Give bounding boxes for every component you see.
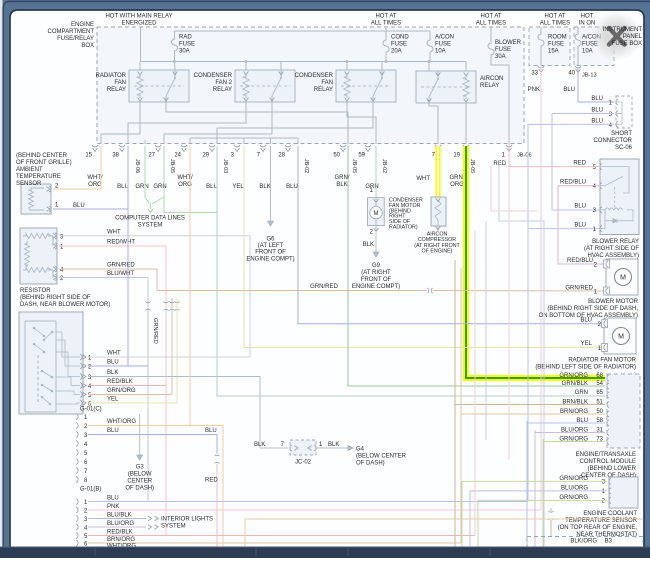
svg-text:BLU: BLU bbox=[73, 203, 85, 209]
wire BLU ECM 58 bbox=[527, 421, 605, 423]
svg-text:15: 15 bbox=[85, 153, 92, 159]
svg-text:M: M bbox=[618, 334, 624, 341]
wire vertical run x486 bbox=[485, 221, 487, 440]
svg-text:ENERGIZED: ENERGIZED bbox=[121, 21, 157, 27]
svg-text:GRN/RED: GRN/RED bbox=[107, 263, 135, 269]
wire BLK/ORG to B3 bbox=[550, 508, 552, 511]
wire BLK to JC-02 bbox=[260, 447, 288, 449]
ECM dashed box bbox=[607, 374, 640, 448]
svg-text:PANEL: PANEL bbox=[623, 34, 643, 40]
svg-text:BLK: BLK bbox=[363, 242, 374, 248]
svg-text:ENGINE: ENGINE bbox=[71, 22, 94, 28]
svg-text:YEL: YEL bbox=[581, 341, 593, 347]
switch pins 1-6 bbox=[80, 354, 86, 406]
svg-text:HOT AT: HOT AT bbox=[544, 14, 565, 20]
svg-text:(BEHIND LOWER: (BEHIND LOWER bbox=[588, 466, 637, 472]
svg-text:FUSE: FUSE bbox=[435, 42, 451, 48]
wire GRN/ORG switch5 bbox=[88, 394, 172, 396]
wire GRN/ORG ECT 3 bbox=[462, 480, 607, 482]
svg-text:CONTROL MODULE: CONTROL MODULE bbox=[580, 459, 636, 465]
svg-text:FRONT OF: FRONT OF bbox=[255, 250, 286, 256]
wire RED/BLK G-01(B)5 bbox=[88, 535, 475, 537]
svg-text:GRN: GRN bbox=[135, 184, 148, 190]
svg-text:ENGINE COMPT): ENGINE COMPT) bbox=[246, 256, 294, 262]
wire pin29 down to ECM 65 bbox=[217, 146, 605, 396]
svg-text:BLU/WHT: BLU/WHT bbox=[107, 271, 134, 277]
svg-text:GRN/: GRN/ bbox=[450, 175, 465, 181]
svg-text:RADIATOR): RADIATOR) bbox=[389, 225, 418, 231]
wire RED/WHT resistor pin1 bbox=[59, 246, 166, 536]
blower motor bbox=[606, 259, 638, 295]
svg-text:BLK: BLK bbox=[336, 182, 347, 188]
svg-text:GRN: GRN bbox=[575, 390, 588, 396]
wire BLU JB-13 to short connector bbox=[578, 67, 614, 102]
svg-text:OF DASH): OF DASH) bbox=[356, 461, 385, 467]
svg-text:HOT: HOT bbox=[581, 14, 594, 20]
ground G9 bbox=[373, 252, 379, 257]
wire WHT highlighted (pin 7 to compressor) bbox=[435, 146, 440, 198]
svg-text:ORG: ORG bbox=[450, 182, 464, 188]
svg-text:G6: G6 bbox=[266, 237, 275, 243]
svg-text:27: 27 bbox=[148, 153, 155, 159]
wire GRN pins to computer data lines bbox=[145, 146, 149, 203]
wire BLU/ORG ECM 31 bbox=[535, 430, 605, 433]
svg-text:YEL: YEL bbox=[232, 184, 244, 190]
svg-text:(AT RIGHT SIDE OF: (AT RIGHT SIDE OF bbox=[584, 246, 639, 252]
svg-text:ALL TIMES: ALL TIMES bbox=[371, 21, 401, 27]
svg-text:BLOWER RELAY: BLOWER RELAY bbox=[592, 239, 639, 245]
svg-text:GRN/ORG: GRN/ORG bbox=[107, 388, 136, 394]
wire BLK JC-02 to G4 bbox=[316, 447, 348, 449]
wire vertical run x475 RED/BLK bbox=[474, 230, 476, 536]
wire GRN pin59 to condenser fan motor bbox=[375, 146, 377, 198]
svg-text:BLU/ORG: BLU/ORG bbox=[107, 521, 134, 527]
wire BLU/BLK G-01(B)3 bbox=[88, 518, 146, 520]
svg-text:FAN 2: FAN 2 bbox=[215, 80, 232, 86]
ambient temperature sensor bbox=[21, 184, 51, 214]
svg-text:BLK: BLK bbox=[259, 184, 270, 190]
fuse A/CON FUSE 10A (instrument panel) bbox=[577, 27, 579, 33]
svg-text:FUSE: FUSE bbox=[179, 42, 195, 48]
aircon compressor bbox=[431, 197, 446, 226]
svg-text:GRN/ORG: GRN/ORG bbox=[559, 373, 588, 379]
wire BLU/ORG G-01(B)4 bbox=[88, 526, 146, 528]
svg-text:BLU: BLU bbox=[591, 108, 603, 114]
wire GRN/BLK pin50 to ECM 54 bbox=[348, 146, 605, 386]
svg-text:68: 68 bbox=[596, 373, 603, 379]
svg-text:FAN: FAN bbox=[114, 80, 126, 86]
svg-text:WHT: WHT bbox=[416, 176, 430, 182]
svg-text:BLU: BLU bbox=[107, 360, 119, 366]
svg-text:AMBIENT: AMBIENT bbox=[16, 167, 43, 173]
svg-text:(ON TOP REAR OF ENGINE,: (ON TOP REAR OF ENGINE, bbox=[558, 525, 638, 531]
svg-text:BLU: BLU bbox=[286, 184, 298, 190]
svg-text:ENGINE COOLANT: ENGINE COOLANT bbox=[583, 511, 637, 517]
svg-text:33: 33 bbox=[531, 71, 538, 77]
svg-text:SHORT: SHORT bbox=[611, 131, 632, 137]
wire BLU SC-06 pin3 to blower relay 3 bbox=[552, 114, 614, 211]
relay RADIATOR FAN RELAY bbox=[129, 70, 189, 102]
svg-text:BLU: BLU bbox=[591, 118, 603, 124]
wire PNK room fuse down to G-01(B)2 bbox=[540, 67, 542, 510]
wire YEL switch6 bbox=[88, 402, 177, 404]
wire BLK pin7 to G6 bbox=[270, 146, 272, 221]
wire bus hot-at-all-times top bbox=[385, 27, 387, 31]
inline connectors (splices) x148,166,172,177 bbox=[145, 302, 150, 303]
svg-text:IN ON: IN ON bbox=[579, 21, 596, 27]
svg-text:(BELOW CENTER: (BELOW CENTER bbox=[356, 454, 407, 460]
wire BLU SC-06 pin4 to blower relay 1 and G-01(B)1 bbox=[528, 124, 614, 501]
svg-text:38: 38 bbox=[112, 153, 119, 159]
svg-text:B3: B3 bbox=[605, 539, 613, 545]
svg-text:BOX: BOX bbox=[81, 43, 94, 49]
svg-text:BLU: BLU bbox=[591, 96, 603, 102]
svg-text:G4: G4 bbox=[356, 447, 365, 453]
svg-text:SC-06: SC-06 bbox=[615, 145, 633, 151]
svg-text:FAN: FAN bbox=[321, 80, 333, 86]
wire GRN/RED resistor pin4 bbox=[59, 269, 157, 291]
bottom-right dashed box bbox=[527, 537, 643, 553]
svg-text:WHT/: WHT/ bbox=[177, 175, 193, 181]
svg-text:RELAY: RELAY bbox=[107, 87, 126, 93]
svg-text:30A: 30A bbox=[495, 54, 506, 60]
svg-text:JB-13: JB-13 bbox=[582, 73, 597, 79]
svg-text:50: 50 bbox=[333, 153, 340, 159]
wire aircon switch output (pre-highlight) bbox=[429, 103, 438, 144]
svg-text:BLU: BLU bbox=[206, 184, 218, 190]
svg-text:JB-05: JB-05 bbox=[169, 159, 175, 173]
relay AIRCON RELAY bbox=[416, 71, 476, 103]
wire WHT/ORG G-01(B)7 bbox=[88, 549, 223, 551]
wire BRN/ORG G-01(B)6 bbox=[88, 542, 461, 544]
wire GRN pin27 to ECM 65 bbox=[164, 197, 217, 213]
wire GRN/ORG ECM 73 bbox=[543, 439, 605, 442]
svg-text:G9: G9 bbox=[372, 263, 381, 269]
svg-text:20A: 20A bbox=[391, 49, 402, 55]
svg-text:COMPARTMENT: COMPARTMENT bbox=[48, 29, 95, 35]
svg-text:CONDENSER: CONDENSER bbox=[295, 73, 334, 79]
svg-text:FRONT OF: FRONT OF bbox=[361, 277, 392, 283]
svg-text:JB-02: JB-02 bbox=[303, 159, 309, 173]
svg-text:BLK/ORG: BLK/ORG bbox=[570, 539, 597, 545]
svg-text:RED/BLK: RED/BLK bbox=[107, 379, 133, 385]
wire feed main relay bbox=[140, 27, 142, 62]
ECM pin labels bbox=[559, 373, 603, 443]
interior lights arrows bbox=[155, 516, 159, 521]
svg-text:BLU/BLK: BLU/BLK bbox=[107, 513, 132, 519]
fuse BLOWER FUSE 30A bbox=[490, 27, 492, 42]
svg-text:GRN: GRN bbox=[153, 184, 166, 190]
svg-text:(BEHIND RIGHT SIDE OF DASH,: (BEHIND RIGHT SIDE OF DASH, bbox=[547, 306, 638, 312]
short connector SC-06 bbox=[616, 96, 632, 128]
wire WHT resistor pin3 bbox=[59, 236, 250, 357]
svg-text:(BEHIND RIGHT SIDE OF: (BEHIND RIGHT SIDE OF bbox=[20, 295, 91, 301]
svg-text:GRN/RED: GRN/RED bbox=[310, 284, 338, 290]
svg-text:JB-06: JB-06 bbox=[134, 159, 140, 173]
fuse COND FUSE 20A bbox=[385, 31, 387, 39]
wire GRN/ORG (switch 5) vertical bbox=[171, 298, 173, 395]
bottom status bar bbox=[0, 547, 650, 558]
svg-text:FUSE: FUSE bbox=[391, 42, 407, 48]
svg-text:DASH, NEAR BLOWER MOTOR): DASH, NEAR BLOWER MOTOR) bbox=[20, 302, 110, 308]
wire PNK G-01(B)2 bbox=[88, 509, 541, 511]
JB junction labels (vertical) bbox=[134, 159, 475, 173]
wire colour labels under fusebox bbox=[0, 0, 1, 1]
wire BLU vertical x217 bbox=[216, 435, 218, 455]
svg-text:SYSTEM: SYSTEM bbox=[138, 223, 163, 229]
junction connector JC-02 bbox=[290, 440, 316, 455]
svg-text:FUSE: FUSE bbox=[548, 42, 564, 48]
svg-text:ROOM: ROOM bbox=[548, 35, 567, 41]
svg-text:RADIATOR: RADIATOR bbox=[96, 73, 127, 79]
svg-text:FUSE/RELAY: FUSE/RELAY bbox=[57, 36, 94, 42]
svg-text:RED: RED bbox=[573, 160, 586, 166]
svg-text:INSTRUMENT: INSTRUMENT bbox=[603, 27, 643, 33]
svg-text:COND: COND bbox=[391, 35, 409, 41]
splice on BLU/RED vertical bbox=[214, 455, 219, 456]
wire BLU G-01(C)3 bbox=[88, 434, 217, 436]
svg-text:OF ENGINE): OF ENGINE) bbox=[422, 249, 453, 255]
svg-text:JC-02: JC-02 bbox=[295, 460, 312, 466]
svg-text:RED: RED bbox=[493, 161, 506, 167]
svg-text:RESISTOR: RESISTOR bbox=[20, 288, 51, 294]
svg-text:54: 54 bbox=[596, 381, 603, 387]
svg-text:M: M bbox=[620, 275, 626, 282]
svg-text:CENTER: CENTER bbox=[127, 479, 152, 485]
svg-text:AIRCON: AIRCON bbox=[480, 76, 503, 82]
fusebox bottom pins bbox=[92, 145, 512, 152]
relay BLOWER RELAY bbox=[600, 159, 639, 235]
relay CONDENSER FAN 2 RELAY bbox=[235, 70, 295, 102]
fuse RAD FUSE 30A bbox=[174, 31, 176, 38]
svg-text:ALL TIMES: ALL TIMES bbox=[540, 21, 570, 27]
svg-text:RELAY: RELAY bbox=[314, 87, 333, 93]
svg-text:24: 24 bbox=[174, 153, 181, 159]
svg-text:GRN/RED: GRN/RED bbox=[152, 318, 158, 344]
svg-text:BLU: BLU bbox=[205, 428, 217, 434]
svg-text:29: 29 bbox=[202, 153, 209, 159]
wire RED/BLU relay 4 to blower motor 2 bbox=[558, 186, 606, 264]
svg-text:BLU: BLU bbox=[574, 222, 586, 228]
svg-text:HOT AT: HOT AT bbox=[480, 14, 501, 20]
svg-text:RADIATOR FAN MOTOR: RADIATOR FAN MOTOR bbox=[568, 358, 636, 364]
wire BLU switch2 bbox=[88, 365, 148, 367]
svg-text:M: M bbox=[374, 211, 379, 217]
wire BLK switch3 bbox=[88, 377, 260, 449]
svg-text:PNK: PNK bbox=[107, 504, 119, 510]
radiator fan motor bbox=[604, 318, 636, 354]
svg-text:COMPUTER DATA LINES: COMPUTER DATA LINES bbox=[115, 216, 185, 222]
svg-text:JB-03: JB-03 bbox=[222, 159, 228, 173]
wire BRN/BLK ECM 51 bbox=[455, 260, 605, 405]
wire YEL (switch 6) vertical bbox=[176, 298, 178, 403]
wire vertical run x499 with elbow bbox=[499, 160, 544, 547]
ground G6 bbox=[268, 221, 274, 226]
svg-text:BLU: BLU bbox=[107, 428, 119, 434]
svg-text:(AT LEFT: (AT LEFT bbox=[258, 243, 284, 249]
svg-text:ENGINE COMPT): ENGINE COMPT) bbox=[352, 284, 400, 290]
svg-text:30A: 30A bbox=[179, 49, 190, 55]
svg-text:59: 59 bbox=[358, 153, 365, 159]
svg-text:BLU: BLU bbox=[574, 204, 586, 210]
svg-text:OF FRONT GRILLE): OF FRONT GRILLE) bbox=[16, 160, 72, 166]
svg-text:ENGINE/TRANSAXLE: ENGINE/TRANSAXLE bbox=[576, 452, 636, 458]
svg-text:28: 28 bbox=[278, 153, 285, 159]
fuse A/CON FUSE 10A (engine box) bbox=[429, 31, 431, 39]
switch internals bbox=[37, 355, 39, 405]
wire GRN/ORG highlighted (pin 19 to ECM 68) bbox=[466, 146, 605, 378]
svg-text:JB-05: JB-05 bbox=[351, 159, 357, 173]
wire RED lower part bbox=[216, 464, 218, 547]
svg-text:BRN/ORG: BRN/ORG bbox=[107, 537, 135, 543]
wire BLU sensor pin1 bbox=[53, 208, 128, 210]
room/instrument fuse boxes fill bbox=[529, 27, 570, 66]
blower switch assembly box bbox=[19, 312, 83, 414]
svg-text:RELAY: RELAY bbox=[213, 87, 232, 93]
svg-text:RED/BLK: RED/BLK bbox=[107, 530, 133, 536]
svg-text:(BELOW: (BELOW bbox=[128, 472, 152, 478]
wire WHT/ORG sensor pin2 bbox=[53, 146, 101, 189]
svg-text:BLOWER: BLOWER bbox=[495, 40, 522, 46]
svg-text:ALL TIMES: ALL TIMES bbox=[476, 21, 506, 27]
svg-text:BLU: BLU bbox=[107, 496, 119, 502]
svg-text:JB-05: JB-05 bbox=[469, 159, 475, 173]
svg-text:BLK: BLK bbox=[254, 442, 265, 448]
svg-text:10A: 10A bbox=[582, 49, 593, 55]
svg-text:INTERIOR LIGHTS: INTERIOR LIGHTS bbox=[161, 517, 213, 523]
svg-text:RED/WHT: RED/WHT bbox=[107, 240, 135, 246]
fuse ROOM FUSE 15A bbox=[540, 27, 542, 33]
svg-text:RED/BLU: RED/BLU bbox=[560, 179, 586, 185]
wire vertical run x509 red bbox=[508, 167, 510, 460]
wire WHT switch1 bbox=[88, 356, 250, 358]
pins room/instr fuse boxes bbox=[538, 66, 581, 73]
svg-text:G-01(C): G-01(C) bbox=[80, 407, 102, 413]
svg-text:FUSE: FUSE bbox=[495, 47, 511, 53]
wire BLK condenser fan motor to G9 bbox=[375, 229, 377, 253]
svg-text:10A: 10A bbox=[435, 49, 446, 55]
wire mesh below relays bbox=[101, 102, 140, 144]
svg-text:HOT WITH MAIN RELAY: HOT WITH MAIN RELAY bbox=[105, 14, 172, 20]
svg-text:YEL: YEL bbox=[107, 397, 119, 403]
svg-text:(AT RIGHT: (AT RIGHT bbox=[361, 270, 391, 276]
svg-text:FUSE BOX: FUSE BOX bbox=[612, 41, 642, 47]
engine compartment fuse/relay box outline bbox=[97, 27, 524, 144]
svg-text:WHT: WHT bbox=[107, 230, 121, 236]
wire aircon coil output (pre-highlight) bbox=[465, 103, 467, 144]
svg-text:TEMPERATURE: TEMPERATURE bbox=[16, 174, 61, 180]
svg-text:G-01(B): G-01(B) bbox=[80, 487, 101, 493]
fusebox pin numbers bbox=[85, 153, 505, 159]
svg-text:JB-02: JB-02 bbox=[381, 159, 387, 173]
svg-text:RED/BLU: RED/BLU bbox=[567, 258, 593, 264]
wire relay top stubs bbox=[139, 62, 141, 71]
wire WHT/ORG pin24 down bbox=[189, 146, 191, 426]
svg-text:40: 40 bbox=[568, 71, 575, 77]
svg-text:65: 65 bbox=[596, 390, 603, 396]
svg-text:SENSOR: SENSOR bbox=[16, 181, 42, 187]
svg-text:HOT AT: HOT AT bbox=[375, 14, 396, 20]
svg-text:NEAR THERMOSTAT): NEAR THERMOSTAT) bbox=[576, 532, 637, 538]
svg-text:PNK: PNK bbox=[528, 87, 540, 93]
wire BRN/ORG ECM 50 to G-01(B)6 bbox=[461, 268, 605, 414]
svg-text:BLOWER MOTOR: BLOWER MOTOR bbox=[588, 299, 639, 305]
svg-text:CONDENSER: CONDENSER bbox=[194, 73, 233, 79]
relay CONDENSER FAN RELAY bbox=[336, 70, 396, 102]
svg-text:(BEHIND CENTER: (BEHIND CENTER bbox=[16, 153, 68, 159]
switch pin routing bbox=[56, 332, 80, 404]
wire BLU G-01(B)1 bbox=[88, 501, 528, 503]
wire RED blower fuse to relay 5 bbox=[509, 144, 600, 167]
svg-text:OF DASH): OF DASH) bbox=[125, 486, 154, 492]
svg-text:WHT: WHT bbox=[107, 351, 121, 357]
svg-text:15A: 15A bbox=[548, 49, 559, 55]
svg-text:BLK: BLK bbox=[107, 370, 118, 376]
svg-text:JB-06: JB-06 bbox=[517, 153, 532, 159]
wire GRN/ORG ECT 2 bbox=[478, 499, 607, 501]
svg-text:HVAC ASSEMBLY): HVAC ASSEMBLY) bbox=[588, 253, 639, 259]
wire BLU pin28 to radiator fan motor bbox=[298, 146, 604, 324]
engine coolant temperature sensor box bbox=[609, 477, 638, 508]
wire WHT/ORG G-01(C)2 bbox=[88, 426, 223, 550]
svg-text:BLU: BLU bbox=[563, 87, 575, 93]
wire BLU/ORG ECT 1 bbox=[470, 490, 607, 492]
svg-text:GRN/BLK: GRN/BLK bbox=[562, 381, 588, 387]
ground G4 bbox=[348, 446, 353, 451]
svg-text:RAD: RAD bbox=[179, 35, 192, 41]
svg-text:G3: G3 bbox=[136, 465, 145, 471]
wire GRN/RED long horizontal to blower motor bbox=[157, 290, 427, 292]
svg-text:CONNECTOR: CONNECTOR bbox=[593, 138, 632, 144]
svg-text:BLU: BLU bbox=[580, 317, 592, 323]
wire RED/BLK switch4 bbox=[88, 385, 166, 387]
ground G3 and stub bbox=[139, 414, 141, 455]
svg-text:19: 19 bbox=[453, 153, 460, 159]
svg-text:GRN/RED: GRN/RED bbox=[565, 286, 593, 292]
wire relay coil bus bbox=[141, 61, 466, 63]
svg-text:ORG: ORG bbox=[88, 182, 102, 188]
svg-text:A/CON: A/CON bbox=[435, 35, 454, 41]
wire pink elbow x491 bbox=[491, 166, 537, 211]
svg-text:(BEHIND LEFT SIDE OF RADIATOR): (BEHIND LEFT SIDE OF RADIATOR) bbox=[535, 365, 636, 371]
wire BLU pin38 down bbox=[127, 146, 129, 366]
svg-text:BLU: BLU bbox=[117, 184, 129, 190]
wire BLU/WHT resistor pin2 bbox=[59, 278, 148, 502]
svg-text:WHT/ORG: WHT/ORG bbox=[107, 419, 136, 425]
svg-text:BLK: BLK bbox=[328, 442, 339, 448]
resistor (blower) bbox=[20, 228, 57, 284]
wire orange L bottom middle bbox=[245, 519, 650, 552]
svg-text:SYSTEM: SYSTEM bbox=[161, 524, 186, 530]
svg-text:RELAY: RELAY bbox=[480, 83, 499, 89]
svg-text:RED: RED bbox=[205, 478, 218, 484]
wire YEL pin3 to radiator fan motor bbox=[244, 146, 604, 348]
